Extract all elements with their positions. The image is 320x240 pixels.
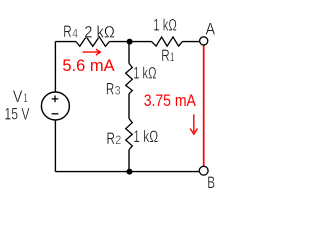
current arrow 5.6 mA: [83, 49, 101, 55]
svg-text:3: 3: [115, 83, 121, 97]
wire: [182, 41, 199, 43]
svg-text:1 kΩ: 1 kΩ: [133, 64, 156, 82]
wire: [109, 41, 151, 43]
node A: [200, 37, 208, 45]
wire: [203, 45, 205, 166]
svg-text:V: V: [13, 88, 23, 106]
svg-text:1 kΩ: 1 kΩ: [153, 16, 177, 34]
svg-text:1 kΩ: 1 kΩ: [133, 128, 158, 146]
wire: [128, 150, 130, 172]
svg-text:1: 1: [170, 50, 175, 64]
svg-text:2: 2: [115, 133, 121, 147]
current arrow 3.75 mA: [190, 114, 197, 134]
voltage source V1: [41, 92, 69, 120]
svg-text:A: A: [206, 20, 216, 38]
svg-text:3.75 mA: 3.75 mA: [144, 92, 196, 110]
wire: [54, 120, 56, 172]
svg-text:R: R: [107, 130, 115, 148]
wire: [55, 171, 199, 173]
node B: [199, 166, 208, 175]
svg-text:R: R: [161, 47, 169, 65]
svg-text:15 V: 15 V: [4, 105, 29, 123]
wire: [54, 42, 56, 93]
wire: [128, 42, 130, 64]
wire: [128, 94, 130, 119]
svg-text:5.6 mA: 5.6 mA: [62, 57, 114, 75]
junction: [127, 169, 133, 175]
svg-text:R: R: [106, 80, 114, 98]
svg-text:1: 1: [24, 91, 28, 105]
svg-text:2 kΩ: 2 kΩ: [84, 23, 115, 41]
svg-text:B: B: [207, 174, 215, 192]
svg-text:R: R: [63, 23, 71, 41]
resistor R2: [126, 119, 133, 150]
resistor R1: [152, 37, 183, 46]
junction: [127, 39, 133, 45]
resistor R3: [126, 63, 133, 93]
wire: [55, 41, 76, 43]
svg-text:4: 4: [72, 26, 78, 40]
resistor R4: [76, 37, 109, 47]
